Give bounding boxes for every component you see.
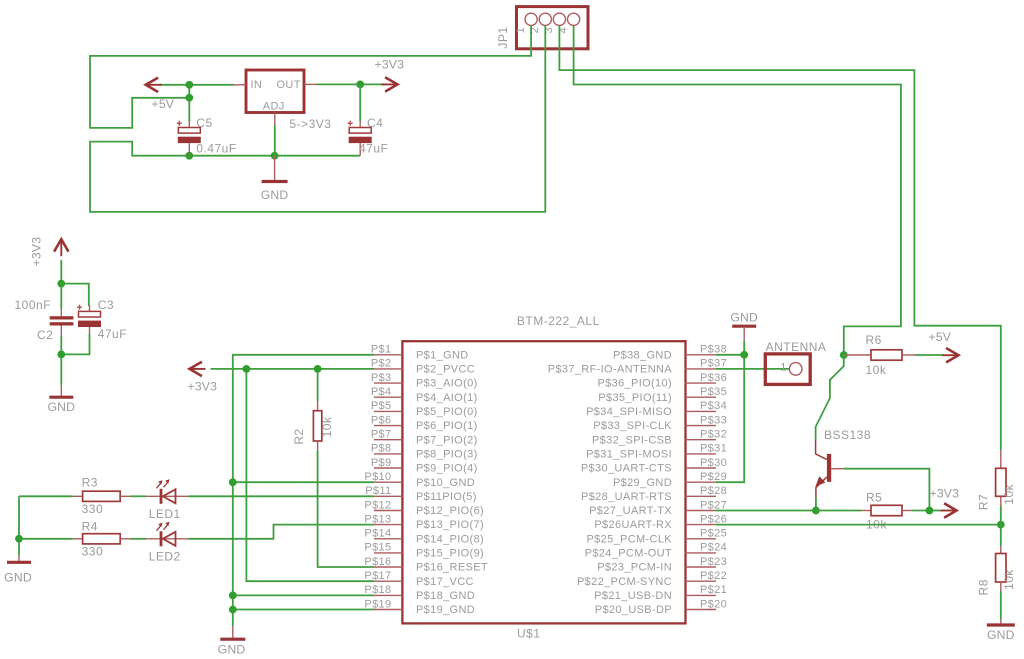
- wire net GND from C3 bottom: [61, 334, 89, 354]
- regulator pin IN lead: [234, 84, 247, 86]
- svg-text:BSS138: BSS138: [824, 428, 871, 442]
- svg-text:P$30_UART-CTS: P$30_UART-CTS: [581, 463, 672, 475]
- resistor R5 left lead: [861, 510, 871, 512]
- IC U$1 pin P$19 stub: [374, 609, 402, 611]
- svg-text:P$4_AIO(1): P$4_AIO(1): [416, 392, 478, 404]
- ground symbol lead at C2: [60, 385, 62, 396]
- IC U$1 pin P$34 stub: [686, 410, 717, 412]
- node junction GND at P$38: [740, 351, 748, 359]
- ground symbol lead at R8: [1000, 620, 1002, 624]
- svg-text:P$20_USB-DP: P$20_USB-DP: [595, 604, 672, 616]
- svg-text:P$7_PIO(2): P$7_PIO(2): [416, 434, 478, 446]
- voltage-regulator box IN/OUT/ADJ: [246, 70, 304, 113]
- ground symbol lead at regulator: [274, 156, 276, 181]
- capacitor C3 bottom lead: [89, 327, 91, 334]
- resistor R2 top lead: [317, 401, 319, 411]
- transistor Q1 drain lead: [816, 439, 827, 460]
- resistor R5 body: [871, 505, 902, 515]
- node junction +3V3 at C2 top: [57, 280, 65, 288]
- IC U$1 pin P$8 stub: [374, 453, 402, 455]
- svg-text:P$3_AIO(0): P$3_AIO(0): [416, 378, 478, 390]
- IC U$1 pin P$29 stub: [686, 481, 717, 483]
- IC U$1 pin P$10 stub: [374, 481, 402, 483]
- wire net +3V3 to IC P$2: [211, 368, 375, 370]
- supply symbol +3V3 up arrow: [60, 241, 62, 257]
- connector JP1 pad pin 4: [568, 13, 580, 25]
- svg-text:P$19_GND: P$19_GND: [416, 604, 475, 616]
- svg-text:P$37: P$37: [700, 358, 727, 370]
- IC U$1 pin P$37 stub: [686, 368, 717, 370]
- ground symbol lead left rail: [18, 556, 20, 562]
- wire net R4 to LED2: [131, 538, 147, 540]
- svg-text:330: 330: [82, 502, 104, 516]
- IC U$1 pin P$12 stub: [374, 510, 402, 512]
- ground symbol bar at regulator: [262, 180, 288, 183]
- node junction +3V3 at R5 right: [926, 507, 934, 515]
- svg-text:P$16_RESET: P$16_RESET: [416, 562, 488, 574]
- wire net R8 bottom to GND: [1000, 591, 1002, 620]
- svg-text:P$19: P$19: [364, 598, 391, 610]
- wire net LED2 jog to IC P$13: [188, 525, 374, 539]
- resistor R8 body: [996, 554, 1006, 583]
- svg-text:P$13: P$13: [364, 513, 391, 525]
- IC U$1 pin P$11 stub: [374, 495, 402, 497]
- svg-text:+3V3: +3V3: [30, 237, 44, 267]
- capacitor C4 bottom lead: [359, 143, 361, 156]
- svg-text:P$21: P$21: [700, 584, 727, 596]
- supply symbol +3V3 left arrow at P$2: [191, 368, 206, 370]
- wire net source node to R5: [816, 510, 861, 512]
- svg-text:ADJ: ADJ: [263, 101, 285, 113]
- svg-text:C2: C2: [37, 328, 53, 342]
- svg-text:GND: GND: [218, 642, 246, 656]
- transistor Q1 source lead: [816, 477, 827, 497]
- svg-text:P$24: P$24: [700, 542, 727, 554]
- capacitor C2 top plate: [50, 316, 74, 319]
- wire net LED1 to IC P$11: [188, 495, 374, 497]
- svg-text:10k: 10k: [866, 363, 887, 377]
- svg-text:R8: R8: [977, 579, 991, 595]
- svg-text:JP1: JP1: [496, 26, 510, 48]
- svg-text:P$11PIO(5): P$11PIO(5): [416, 491, 477, 503]
- wire net R6 to +5V arrow: [915, 354, 944, 356]
- svg-text:P$13_PIO(7): P$13_PIO(7): [416, 519, 484, 531]
- svg-text:P$15_PIO(9): P$15_PIO(9): [416, 548, 484, 560]
- svg-text:GND: GND: [987, 628, 1015, 642]
- svg-text:10k: 10k: [1002, 569, 1016, 590]
- IC U$1 pin P$32 stub: [686, 439, 717, 441]
- svg-text:P$28_UART-RTS: P$28_UART-RTS: [581, 491, 672, 503]
- svg-text:+5V: +5V: [152, 97, 175, 111]
- IC U$1 pin P$33 stub: [686, 425, 717, 427]
- svg-text:P$29: P$29: [700, 471, 727, 483]
- node junction +3V3 at C4 top: [356, 81, 364, 89]
- LED LED2 cathode bar: [160, 531, 163, 546]
- resistor R2 bottom lead: [317, 441, 319, 451]
- connector JP1 body: [517, 7, 589, 49]
- ground symbol bar left rail: [7, 561, 31, 564]
- node junction P$27 at source: [812, 507, 820, 515]
- svg-text:P$31_SPI-MOSI: P$31_SPI-MOSI: [586, 449, 672, 461]
- wire net R7 bottom to divider mid: [1000, 506, 1002, 525]
- supply symbol +3V3 right arrow: [382, 83, 397, 85]
- svg-text:LED2: LED2: [149, 549, 181, 563]
- wire net GND from JP1 pin 2 around bottom loop: [90, 25, 545, 212]
- svg-text:P$29_GND: P$29_GND: [613, 477, 672, 489]
- IC U$1 pin P$27 stub: [686, 510, 717, 512]
- resistor R7 body: [996, 468, 1006, 496]
- node junction GND rail at P$19: [229, 606, 237, 614]
- IC U$1 pin P$17 stub: [374, 580, 402, 582]
- IC U$1 pin P$9 stub: [374, 467, 402, 469]
- svg-text:P$6_PIO(1): P$6_PIO(1): [416, 420, 478, 432]
- svg-text:P$14: P$14: [364, 528, 391, 540]
- wire net GND spur to P$10: [233, 481, 374, 483]
- LED LED1 triangle: [163, 489, 176, 503]
- wire net ADJ to GND rail: [274, 125, 276, 156]
- capacitor C2 top lead: [60, 309, 62, 316]
- IC U$1 pin P$15 stub: [374, 552, 402, 554]
- svg-text:P$24_PCM-OUT: P$24_PCM-OUT: [585, 548, 672, 560]
- IC U$1 pin P$2 stub: [374, 368, 402, 370]
- svg-text:P$8: P$8: [371, 443, 392, 455]
- svg-text:P$37_RF-IO-ANTENNA: P$37_RF-IO-ANTENNA: [548, 364, 673, 376]
- node junction GND at C2 bottom: [57, 351, 65, 359]
- svg-text:P$27: P$27: [700, 499, 727, 511]
- svg-text:100nF: 100nF: [15, 298, 52, 312]
- IC U$1 pin P$36 stub: [686, 382, 717, 384]
- svg-text:IN: IN: [251, 79, 263, 91]
- antenna pad pin 1: [789, 363, 802, 376]
- node junction +3V3 at R2: [314, 365, 322, 373]
- svg-text:R4: R4: [82, 520, 98, 534]
- svg-text:1: 1: [515, 27, 527, 33]
- LED LED1 emission arrows: [157, 483, 162, 489]
- svg-text:P$18: P$18: [364, 584, 391, 596]
- transistor Q1 source arrowhead: [815, 476, 825, 486]
- IC U$1 pin P$4 stub: [374, 396, 402, 398]
- wire net source to P$27 rail: [815, 497, 817, 511]
- svg-text:P$11: P$11: [365, 485, 391, 497]
- svg-text:P$1: P$1: [371, 344, 392, 356]
- svg-text:P$36: P$36: [700, 372, 727, 384]
- capacitor C2 bottom plate: [50, 322, 74, 325]
- wire net +3V3 to R2 top: [317, 369, 319, 401]
- IC U$1 pin P$1 stub: [374, 354, 402, 356]
- antenna connector body: [765, 354, 810, 385]
- svg-text:P$2_PVCC: P$2_PVCC: [416, 364, 475, 376]
- IC U$1 pin P$21 stub: [686, 594, 717, 596]
- svg-text:GND: GND: [730, 311, 758, 325]
- ground symbol lead under IC: [232, 626, 234, 638]
- node junction divider mid: [997, 521, 1005, 529]
- capacitor C5 top lead: [188, 121, 190, 128]
- svg-text:P$26UART-RX: P$26UART-RX: [594, 519, 672, 531]
- node junction GND left rail at R4: [15, 535, 23, 543]
- svg-text:U$1: U$1: [517, 627, 541, 641]
- svg-text:P$3: P$3: [371, 372, 392, 384]
- svg-text:P$12: P$12: [364, 499, 391, 511]
- LED LED2 triangle: [163, 532, 176, 546]
- svg-text:P$27_UART-TX: P$27_UART-TX: [589, 505, 672, 517]
- wire net P$27 UART-TX row: [716, 510, 816, 512]
- wire net GND spur to P$18: [233, 594, 374, 596]
- node junction TX-5V at R6: [840, 351, 848, 359]
- svg-text:P$30: P$30: [700, 457, 727, 469]
- resistor R8 bottom lead: [1000, 582, 1002, 591]
- capacitor C4 symbol: [349, 128, 371, 134]
- svg-text:P$36_PIO(10): P$36_PIO(10): [597, 378, 672, 390]
- IC U$1 pin P$25 stub: [686, 538, 717, 540]
- wire net RX from JP1 pin 3 to R7 top: [559, 25, 1000, 450]
- capacitor C3 top lead: [89, 305, 91, 311]
- svg-text:R3: R3: [82, 476, 98, 490]
- wire net +3V3 branch to C3: [61, 284, 89, 306]
- node junction GND rail at P$10: [229, 478, 237, 486]
- svg-text:P$22: P$22: [700, 570, 727, 582]
- svg-text:R7: R7: [977, 494, 991, 510]
- LED LED1 cathode bar: [160, 489, 163, 504]
- svg-text:C3: C3: [98, 298, 114, 312]
- svg-text:P$9: P$9: [371, 457, 392, 469]
- svg-text:P$25_PCM-CLK: P$25_PCM-CLK: [586, 533, 672, 545]
- resistor R3 right lead: [120, 495, 130, 497]
- wire net R5 to +3V3 node: [912, 510, 942, 512]
- svg-text:P$32: P$32: [700, 429, 727, 441]
- svg-text:5->3V3: 5->3V3: [289, 117, 331, 131]
- svg-text:+3V3: +3V3: [188, 380, 218, 394]
- IC U$1 pin P$38 stub: [686, 354, 717, 356]
- wire net +3V3 down to P$17: [246, 369, 374, 581]
- node junction +5V jog at (189,98): [185, 94, 193, 102]
- svg-text:P$25: P$25: [700, 528, 727, 540]
- node junction +3V3 at P$2 drop: [243, 365, 251, 373]
- regulator pin OUT lead: [304, 83, 317, 85]
- node junction GND rail at P$18: [229, 592, 237, 600]
- wire net P$26 UART-RX row to divider: [716, 524, 1001, 526]
- wire net TX-5V from JP1 pin 4 to R6 node: [574, 25, 901, 355]
- svg-text:P$31: P$31: [700, 443, 727, 455]
- node junction +5V at (189,85): [185, 81, 193, 89]
- svg-text:GND: GND: [261, 188, 289, 202]
- svg-text:P$28: P$28: [700, 485, 727, 497]
- regulator pin ADJ lead: [274, 113, 276, 126]
- IC U$1 pin P$24 stub: [686, 552, 717, 554]
- svg-text:1: 1: [780, 362, 786, 374]
- resistor R3 body: [83, 491, 121, 501]
- IC U$1 pin P$6 stub: [374, 425, 402, 427]
- svg-text:+5V: +5V: [929, 330, 952, 344]
- svg-text:P$12_PIO(6): P$12_PIO(6): [416, 505, 484, 517]
- wire net R2 bottom to IC P$16: [318, 451, 374, 568]
- svg-text:P$6: P$6: [371, 414, 392, 426]
- svg-text:R6: R6: [866, 333, 882, 347]
- svg-text:P$9_PIO(4): P$9_PIO(4): [416, 463, 478, 475]
- IC U$1 pin P$23 stub: [686, 566, 717, 568]
- wire net drain from R6 node to transistor: [816, 355, 844, 439]
- capacitor C5 symbol: [178, 128, 200, 134]
- svg-text:P$17_VCC: P$17_VCC: [416, 576, 474, 588]
- svg-text:P$35_PIO(11): P$35_PIO(11): [598, 392, 672, 404]
- resistor R7 bottom lead: [1000, 496, 1002, 506]
- IC U$1 body BTM-222_ALL: [402, 341, 685, 623]
- ground symbol bar at C2: [49, 396, 73, 399]
- resistor R4 body: [83, 534, 121, 544]
- IC U$1 pin P$31 stub: [686, 453, 717, 455]
- supply symbol +5V right arrow: [943, 354, 958, 356]
- capacitor C5 bottom lead: [188, 143, 190, 156]
- connector JP1 pad pin 3: [553, 13, 565, 25]
- wire net GND rail left of IC (P$1/P$10/P$18/P$19): [233, 355, 374, 626]
- wire net P$37 to antenna: [716, 368, 789, 370]
- svg-text:P$21_USB-DN: P$21_USB-DN: [594, 590, 672, 602]
- svg-text:BTM-222_ALL: BTM-222_ALL: [517, 314, 600, 328]
- svg-text:P$20: P$20: [700, 598, 727, 610]
- transistor Q1 gate lead: [831, 468, 844, 470]
- ground symbol bar at R8: [987, 623, 1015, 626]
- supply symbol +5V left arrow: [147, 84, 162, 86]
- svg-text:P$32_SPI-CSB: P$32_SPI-CSB: [592, 434, 672, 446]
- transistor Q1 body bar: [827, 454, 831, 482]
- wire net R3 to LED1: [131, 495, 147, 497]
- wire net +3V3 regulator OUT to arrow: [317, 83, 386, 85]
- svg-text:P$4: P$4: [371, 386, 392, 398]
- svg-text:P$17: P$17: [364, 570, 391, 582]
- svg-text:10k: 10k: [1002, 483, 1016, 504]
- wire net +3V3 vertical to C4: [359, 84, 361, 121]
- IC U$1 pin P$26 stub: [686, 524, 717, 526]
- svg-text:R5: R5: [866, 491, 882, 505]
- svg-text:GND: GND: [47, 400, 75, 414]
- svg-text:P$8_PIO(3): P$8_PIO(3): [416, 449, 478, 461]
- IC U$1 pin P$16 stub: [374, 566, 402, 568]
- wire net gate to +3V3 node: [844, 469, 930, 511]
- svg-text:P$1_GND: P$1_GND: [416, 349, 469, 361]
- LED LED1 lead: [146, 495, 189, 497]
- IC U$1 pin P$35 stub: [686, 396, 717, 398]
- node junction GND at C5 bottom: [185, 152, 193, 160]
- IC U$1 pin P$7 stub: [374, 439, 402, 441]
- wire net R4 row: [19, 538, 73, 540]
- svg-text:P$2: P$2: [371, 358, 392, 370]
- LED LED2 emission arrows: [157, 525, 162, 531]
- wire net GND from C2 bottom: [60, 336, 62, 385]
- wire net GND spur to P$19: [233, 609, 374, 611]
- svg-text:GND: GND: [4, 570, 32, 584]
- IC U$1 pin P$18 stub: [374, 594, 402, 596]
- resistor R6 body: [871, 350, 902, 360]
- wire net GND left rail to R3: [19, 495, 73, 497]
- node junction GND at regulator ADJ: [271, 152, 279, 160]
- svg-text:P$5_PIO(0): P$5_PIO(0): [416, 406, 478, 418]
- svg-text:P$18_GND: P$18_GND: [416, 590, 475, 602]
- resistor R8 top lead: [1000, 546, 1002, 554]
- resistor R4 left lead: [73, 538, 83, 540]
- IC U$1 pin P$22 stub: [686, 580, 717, 582]
- ground symbol bar under IC: [220, 638, 245, 641]
- svg-text:C4: C4: [367, 116, 383, 130]
- connector JP1 pad pin 2: [539, 13, 551, 25]
- svg-text:+3V3: +3V3: [930, 487, 960, 501]
- IC U$1 pin P$5 stub: [374, 410, 402, 412]
- wire net +5V horizontal to regulator IN: [160, 84, 234, 86]
- ground symbol bar right of IC: [732, 325, 756, 328]
- svg-text:P$14_PIO(8): P$14_PIO(8): [416, 533, 484, 545]
- svg-text:C5: C5: [196, 116, 212, 130]
- svg-text:0.47uF: 0.47uF: [196, 142, 236, 156]
- svg-text:P$34: P$34: [700, 400, 727, 412]
- svg-text:P$33: P$33: [700, 414, 727, 426]
- IC U$1 pin P$28 stub: [686, 495, 717, 497]
- svg-text:P$23_PCM-IN: P$23_PCM-IN: [597, 562, 672, 574]
- svg-text:P$16: P$16: [364, 556, 391, 568]
- resistor R6 left lead: [844, 354, 871, 356]
- svg-text:P$38_GND: P$38_GND: [613, 349, 672, 361]
- svg-text:P$23: P$23: [700, 556, 727, 568]
- resistor R7 top lead: [1000, 450, 1002, 468]
- svg-text:P$10: P$10: [364, 471, 391, 483]
- wire net GND left rail corner to R4: [18, 496, 20, 555]
- svg-text:47uF: 47uF: [98, 327, 127, 341]
- svg-text:+3V3: +3V3: [375, 58, 405, 72]
- svg-text:P$5: P$5: [371, 400, 392, 412]
- svg-text:P$26: P$26: [700, 513, 727, 525]
- svg-text:330: 330: [82, 545, 104, 559]
- svg-text:P$34_SPI-MISO: P$34_SPI-MISO: [586, 406, 672, 418]
- IC U$1 pin P$20 stub: [686, 609, 717, 611]
- wire net divider mid to R8: [1000, 525, 1002, 546]
- IC U$1 pin P$14 stub: [374, 538, 402, 540]
- svg-text:OUT: OUT: [277, 79, 301, 91]
- svg-text:LED1: LED1: [149, 507, 181, 521]
- svg-text:47uF: 47uF: [359, 142, 388, 156]
- svg-text:R2: R2: [292, 428, 306, 444]
- wire net +5V from JP1 pin 1 around left loop: [90, 25, 531, 128]
- svg-text:P$35: P$35: [700, 386, 727, 398]
- svg-text:10k: 10k: [320, 416, 334, 437]
- capacitor C3 symbol: [79, 311, 101, 317]
- IC U$1 pin P$3 stub: [374, 382, 402, 384]
- svg-text:P$38: P$38: [700, 344, 727, 356]
- resistor R4 right lead: [120, 538, 130, 540]
- LED LED2 lead: [146, 538, 189, 540]
- connector JP1 pad pin 1: [525, 13, 537, 25]
- wire net +5V vertical at C5: [188, 85, 190, 122]
- svg-text:P$10_GND: P$10_GND: [416, 477, 475, 489]
- wire net GND from symbol to P$38 and P$29: [716, 341, 744, 483]
- capacitor C2 bottom lead: [60, 326, 62, 337]
- svg-text:P$22_PCM-SYNC: P$22_PCM-SYNC: [577, 576, 672, 588]
- svg-text:P$15: P$15: [364, 542, 391, 554]
- svg-text:P$7: P$7: [371, 429, 392, 441]
- IC U$1 pin P$13 stub: [374, 524, 402, 526]
- resistor R3 left lead: [73, 495, 83, 497]
- resistor R6 right lead: [902, 354, 915, 356]
- wire net P$38 to GND rail: [716, 354, 744, 356]
- capacitor C4 top lead: [359, 121, 361, 128]
- ground symbol lead right of IC: [743, 326, 745, 340]
- IC U$1 pin P$30 stub: [686, 467, 717, 469]
- svg-text:ANTENNA: ANTENNA: [766, 340, 827, 354]
- wire net +3V3 down to C2: [60, 260, 62, 309]
- svg-text:P$33_SPI-CLK: P$33_SPI-CLK: [593, 420, 672, 432]
- supply symbol +3V3 right arrow at R5: [941, 510, 956, 512]
- resistor R5 right lead: [902, 510, 912, 512]
- resistor R2 body: [313, 411, 321, 441]
